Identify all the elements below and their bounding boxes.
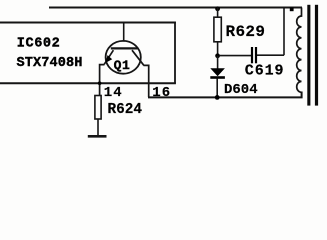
capacitor C619 right plate <box>255 47 257 63</box>
junction R629 top <box>215 6 220 11</box>
capacitor C619 left plate <box>251 47 253 63</box>
diode D604 anode lead <box>217 56 219 69</box>
IC box right edge <box>174 22 176 84</box>
transformer core bar 2 <box>315 5 318 106</box>
transistor Q1 emitter arrowhead <box>105 55 112 63</box>
wire bottom rail <box>148 92 302 98</box>
ground bar <box>88 135 107 138</box>
resistor R629 body <box>214 17 221 42</box>
svg-text:Q1: Q1 <box>114 58 131 73</box>
diode D604 cathode lead <box>216 79 218 98</box>
svg-text:IC602: IC602 <box>17 37 61 52</box>
resistor R624 bottom lead <box>97 119 99 136</box>
IC box bottom edge <box>0 82 176 84</box>
capacitor C619 left wire <box>220 55 251 57</box>
resistor R629 top lead <box>217 8 219 18</box>
resistor R624 body <box>95 96 101 120</box>
svg-text:14: 14 <box>104 85 123 101</box>
transformer T primary winding <box>297 8 302 93</box>
svg-text:C619: C619 <box>245 63 285 80</box>
wire top rail B+ <box>49 7 302 9</box>
diode D604 cathode bar <box>210 76 225 79</box>
junction node R629/D604/C619 <box>215 53 220 58</box>
transistor Q1 base bar <box>111 47 138 49</box>
transistor Q1 circle <box>106 41 141 74</box>
junction pin 14 <box>98 81 102 85</box>
transistor Q1 base lead <box>123 23 125 41</box>
resistor R629 bottom lead <box>217 42 219 56</box>
transformer core bar 1 <box>307 5 310 106</box>
IC box top edge <box>0 22 176 24</box>
diode D604 triangle <box>210 68 225 76</box>
svg-text:STX7408H: STX7408H <box>17 56 83 71</box>
svg-text:R624: R624 <box>108 102 143 118</box>
svg-text:R629: R629 <box>226 23 266 41</box>
junction D604 bottom <box>215 95 220 100</box>
pin 16 wire <box>144 65 149 97</box>
pin 14 wire <box>100 65 105 96</box>
capacitor C619 right wire <box>257 54 284 56</box>
transformer phase dot <box>290 7 294 11</box>
svg-text:16: 16 <box>152 85 171 101</box>
svg-text:D604: D604 <box>224 82 258 98</box>
transistor Q1 emitter diagonal <box>104 50 113 64</box>
wire C619 to top rail <box>283 8 285 56</box>
transistor Q1 collector diagonal <box>132 50 144 65</box>
